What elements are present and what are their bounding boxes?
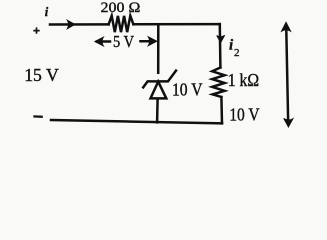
svg-text:i: i <box>45 5 49 19</box>
svg-text:2: 2 <box>234 47 240 59</box>
svg-text:10 V: 10 V <box>172 80 203 100</box>
svg-text:5 V: 5 V <box>113 32 135 51</box>
svg-text:10 V: 10 V <box>229 104 259 124</box>
svg-text:200 Ω: 200 Ω <box>101 0 141 16</box>
svg-text:1 kΩ: 1 kΩ <box>228 70 260 90</box>
svg-text:15 V: 15 V <box>24 65 59 85</box>
